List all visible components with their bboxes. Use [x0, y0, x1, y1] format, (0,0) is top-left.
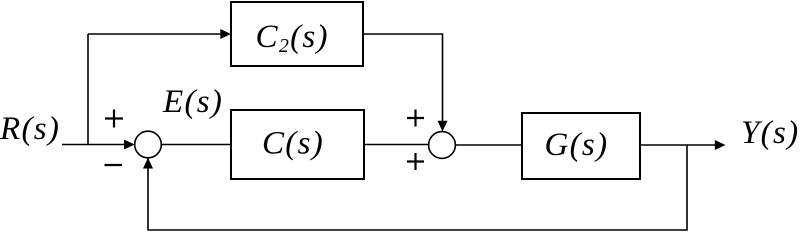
arrowhead into summing junction S1 from left: [124, 140, 135, 150]
wire feedback from output node down, across, and up to S1: [148, 145, 687, 230]
plus sign upper at S2: [407, 110, 424, 127]
wire S1 to C block: [161, 144, 231, 146]
svg-text:G(s): G(s): [545, 127, 609, 163]
arrowhead feedback into S1 from below: [143, 158, 153, 169]
block C(s): [231, 110, 364, 179]
wire S2 to G block: [456, 144, 523, 146]
block G(s): [522, 113, 640, 179]
arrowhead output: [715, 140, 726, 150]
wire feedforward to C2 block: [88, 33, 223, 35]
svg-text:R(s): R(s): [0, 111, 60, 147]
block C2(s): [231, 2, 363, 66]
summing junction S1: [135, 131, 162, 158]
summing junction S2: [429, 132, 456, 159]
wire G block to output: [640, 144, 717, 146]
arrowhead into C2 block: [220, 29, 231, 39]
wire branch up for feedforward path: [87, 34, 89, 145]
svg-text:E(s): E(s): [162, 84, 223, 120]
plus sign at S1: [105, 110, 123, 128]
svg-text:Y(s): Y(s): [741, 115, 799, 151]
svg-text:C2(s): C2(s): [256, 19, 329, 57]
wire input R(s) to summing junction S1: [62, 144, 126, 146]
minus sign at S1: [105, 164, 123, 166]
svg-text:C(s): C(s): [262, 126, 324, 162]
plus sign lower at S2: [407, 153, 424, 170]
arrowhead into summing junction S2 from top: [438, 121, 448, 132]
wire C2 output to summing junction S2: [363, 34, 443, 122]
wire C block to summing junction S2: [364, 144, 429, 146]
